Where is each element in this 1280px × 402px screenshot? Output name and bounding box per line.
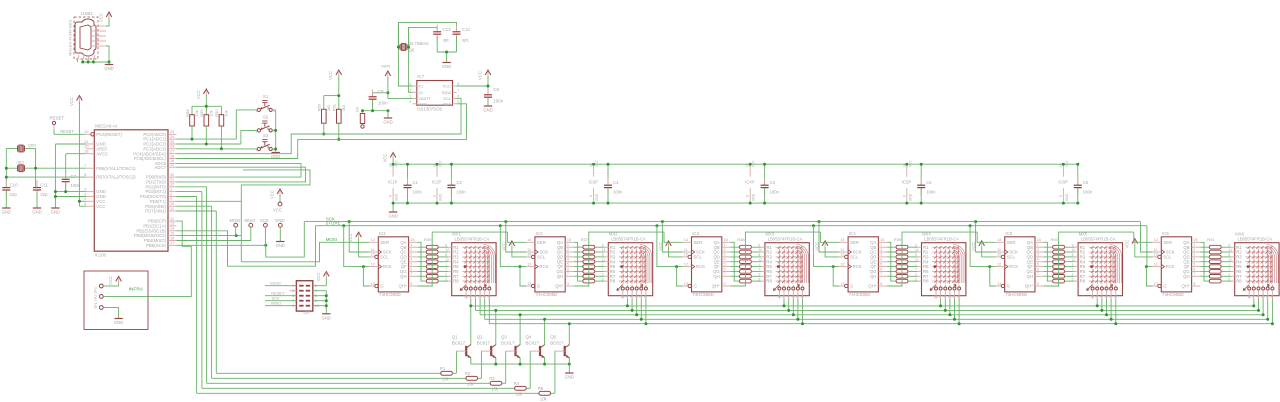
svg-text:2: 2 [170, 192, 172, 196]
wire collector drops to buses [469, 304, 571, 345]
wire emitter rail to GND [471, 363, 571, 373]
svg-text:2: 2 [410, 248, 412, 252]
wire ADC7 to PD1 jog [177, 167, 306, 182]
svg-text:6: 6 [796, 295, 798, 299]
svg-text:5: 5 [1193, 262, 1195, 266]
resistor R88 10k [185, 109, 199, 140]
resistor array R37 [574, 237, 605, 283]
svg-text:R2: R2 [465, 371, 471, 376]
wire buttons common to GND [272, 110, 277, 152]
svg-text:1: 1 [410, 243, 412, 247]
power VCC at USB [99, 12, 112, 22]
svg-text:10: 10 [1154, 253, 1158, 257]
svg-text:6: 6 [1193, 267, 1195, 271]
svg-text:Q3: Q3 [501, 335, 507, 340]
testpoint VCC pad [270, 189, 283, 213]
ground GND ISP [322, 314, 331, 321]
svg-text:R88: R88 [185, 109, 190, 117]
ic power pins IC1P [388, 160, 399, 205]
svg-text:R39: R39 [894, 237, 902, 242]
svg-text:3: 3 [1037, 253, 1039, 257]
svg-text:12: 12 [997, 262, 1001, 266]
ground GND testpoint [276, 242, 285, 249]
ground GND under MCU rail [51, 208, 60, 215]
wire pullup tops [192, 95, 221, 115]
svg-text:9: 9 [724, 282, 726, 286]
svg-text:IC7: IC7 [417, 74, 424, 79]
svg-text:13: 13 [997, 282, 1001, 286]
svg-text:INFRA: INFRA [129, 287, 144, 293]
svg-text:SCL: SCL [380, 255, 389, 260]
capacitor C12 opt [453, 25, 471, 43]
svg-text:4: 4 [1100, 295, 1102, 299]
svg-text:VCC: VCC [595, 160, 599, 167]
svg-text:IC3: IC3 [692, 231, 699, 236]
led matrix MX5 LB05574FR1B-CA [1072, 231, 1123, 298]
svg-text:6: 6 [1266, 295, 1268, 299]
svg-text:BC817: BC817 [452, 340, 466, 345]
svg-text:5: 5 [84, 192, 86, 196]
svg-text:13: 13 [1247, 295, 1251, 299]
svg-text:14: 14 [527, 238, 531, 242]
svg-text:100n: 100n [456, 190, 466, 195]
svg-text:12: 12 [1154, 262, 1158, 266]
svg-text:USB1: USB1 [81, 11, 93, 16]
svg-text:31: 31 [170, 178, 174, 182]
svg-text:18: 18 [84, 150, 88, 154]
testpoint RESET pad [50, 116, 65, 135]
wire PD row to base resistor [177, 192, 515, 389]
power VCC stage 3 [658, 241, 683, 257]
led matrix MX6 LB05574FR1B-CA [1228, 231, 1279, 298]
svg-text:9: 9 [170, 197, 172, 201]
wire C7 to GND row [64, 183, 67, 193]
svg-text:RCK: RCK [1009, 264, 1018, 269]
svg-text:9: 9 [602, 243, 604, 247]
wire ISP MISO [265, 301, 296, 306]
svg-text:PB7(XTAL2/TOSC2): PB7(XTAL2/TOSC2) [96, 175, 136, 180]
svg-text:2: 2 [409, 88, 411, 92]
svg-text:IC3P: IC3P [589, 180, 599, 185]
svg-text:4: 4 [787, 295, 789, 299]
svg-text:GND: GND [322, 315, 331, 320]
svg-text:9: 9 [567, 282, 569, 286]
svg-text:BC817: BC817 [550, 340, 564, 345]
led matrix MX4 LB05574FR1B-CA [915, 231, 966, 298]
wire VCC rail [393, 159, 1078, 165]
testpoint MOSI pad [230, 218, 241, 236]
svg-text:QH*: QH* [555, 284, 563, 289]
svg-text:9: 9 [1037, 282, 1039, 286]
wire SCK net from PB5 [177, 217, 1141, 258]
svg-text:10: 10 [478, 295, 482, 299]
svg-text:C1: C1 [413, 180, 419, 185]
svg-text:11: 11 [644, 295, 648, 299]
svg-text:7: 7 [602, 268, 604, 272]
svg-text:BC817: BC817 [501, 340, 515, 345]
svg-text:LB05574FR1B-CA: LB05574FR1B-CA [1238, 237, 1273, 242]
svg-text:15: 15 [880, 238, 884, 242]
svg-text:5: 5 [602, 277, 604, 281]
wire PC2 to S2 [177, 130, 258, 145]
svg-text:14: 14 [758, 248, 762, 252]
svg-text:VCC: VCC [443, 84, 452, 89]
wire GND rail left of MCU [54, 144, 86, 208]
power VCC stage 4 [815, 241, 840, 257]
svg-text:1: 1 [1193, 243, 1195, 247]
svg-text:ISP: ISP [303, 310, 310, 315]
wire C9 GND row [361, 109, 390, 117]
svg-text:6: 6 [953, 295, 955, 299]
svg-text:13: 13 [840, 282, 844, 286]
svg-text:15: 15 [567, 238, 571, 242]
svg-text:VCC: VCC [108, 276, 113, 285]
wire XTAL2 net [25, 149, 86, 188]
resistor R5 10k base [538, 351, 555, 402]
svg-text:14: 14 [602, 248, 606, 252]
led matrix MX1 LB05574FR1B-CA [445, 231, 496, 298]
wire R50 R51 tops [324, 76, 341, 109]
power VCC at RTC [478, 70, 491, 80]
svg-text:Q1: Q1 [452, 335, 458, 340]
svg-text:14: 14 [1072, 248, 1076, 252]
svg-text:12: 12 [840, 262, 844, 266]
op-amp IC6 74HC595D shift register [1153, 231, 1201, 297]
svg-text:3: 3 [1252, 295, 1254, 299]
svg-text:3: 3 [567, 253, 569, 257]
svg-text:11: 11 [371, 248, 375, 252]
switch S1 [255, 94, 275, 113]
op-amp IC5 74HC595D shift register [996, 231, 1044, 297]
svg-text:6: 6 [410, 267, 412, 271]
svg-text:SQW: SQW [441, 90, 451, 95]
svg-text:GND: GND [275, 218, 285, 223]
svg-text:14: 14 [1154, 238, 1158, 242]
wire MISO net from PB4 [177, 240, 251, 242]
svg-text:C10: C10 [10, 183, 19, 188]
svg-text:VCC: VCC [395, 160, 399, 167]
svg-text:GND: GND [1065, 193, 1069, 201]
op-amp IC7 DS1307SO8 RTC [409, 74, 459, 112]
svg-text:8: 8 [457, 82, 459, 86]
connector USB1 MOLEX-47346-0001 [68, 11, 107, 60]
svg-text:4: 4 [724, 258, 726, 262]
svg-text:SER: SER [537, 240, 546, 245]
wire SCK bus drops [348, 220, 1153, 252]
svg-text:10: 10 [371, 253, 375, 257]
resistor R51 2k2 [332, 103, 346, 141]
svg-text:2: 2 [724, 248, 726, 252]
svg-text:7: 7 [1037, 272, 1039, 276]
crystal Q8/1 [17, 161, 25, 172]
svg-text:13: 13 [684, 282, 688, 286]
svg-text:R1: R1 [440, 366, 446, 371]
svg-text:GND: GND [51, 210, 60, 215]
wire PD row to base resistor [177, 206, 466, 378]
svg-text:8: 8 [902, 195, 906, 197]
svg-text:GND: GND [418, 101, 427, 106]
svg-text:1: 1 [445, 263, 447, 267]
battery G6 [356, 107, 365, 128]
svg-text:GND: GND [2, 210, 11, 215]
svg-text:X2: X2 [418, 90, 424, 95]
op-amp IC2 74HC595D shift register [526, 231, 574, 297]
svg-text:PB6(XTAL1/TOSC1): PB6(XTAL1/TOSC1) [96, 166, 136, 171]
svg-text:32.768kHz: 32.768kHz [409, 41, 429, 46]
svg-text:10: 10 [170, 202, 174, 206]
wire PC1 to S1 [177, 110, 258, 141]
svg-text:VCC: VCC [908, 160, 912, 167]
svg-text:14: 14 [997, 238, 1001, 242]
capacitor C10 22p [2, 180, 18, 207]
svg-text:10k: 10k [224, 110, 229, 116]
svg-text:GND: GND [388, 214, 397, 219]
svg-text:IC1P: IC1P [388, 180, 398, 185]
svg-text:14: 14 [445, 248, 449, 252]
ground GND transistors [565, 373, 574, 380]
svg-text:100n: 100n [413, 190, 423, 195]
ground GND at USB [104, 62, 113, 71]
connector ISP header [292, 281, 319, 315]
svg-text:5: 5 [410, 262, 412, 266]
svg-text:9: 9 [410, 282, 412, 286]
svg-text:11: 11 [1270, 295, 1274, 299]
wire ISP MOSI [265, 281, 296, 286]
svg-text:PD7(AIN1): PD7(AIN1) [145, 209, 166, 214]
svg-text:SCL: SCL [443, 96, 452, 101]
svg-text:74HC595D: 74HC595D [379, 292, 401, 297]
wire XTAL1 net [5, 149, 86, 188]
svg-text:opt.: opt. [462, 38, 469, 43]
svg-text:11: 11 [840, 248, 844, 252]
svg-text:8: 8 [915, 253, 917, 257]
svg-text:22p: 22p [40, 192, 48, 197]
svg-text:74HC595D: 74HC595D [1005, 292, 1027, 297]
svg-text:RCK: RCK [1166, 264, 1175, 269]
svg-text:VBATT: VBATT [418, 96, 431, 101]
svg-text:QH: QH [1183, 274, 1189, 279]
svg-text:IC2: IC2 [536, 231, 543, 236]
svg-text:4: 4 [630, 295, 632, 299]
svg-text:1: 1 [915, 263, 917, 267]
svg-text:SER: SER [850, 240, 859, 245]
svg-text:SER: SER [1007, 240, 1016, 245]
svg-text:6: 6 [724, 267, 726, 271]
svg-text:Q5: Q5 [550, 335, 556, 340]
crystal Q8/2 [18, 143, 37, 152]
svg-text:PC6(RESET): PC6(RESET) [96, 132, 122, 137]
svg-text:11: 11 [957, 295, 961, 299]
svg-text:9: 9 [915, 243, 917, 247]
svg-text:SCL: SCL [694, 255, 703, 260]
svg-text:11: 11 [527, 248, 531, 252]
svg-text:7: 7 [457, 88, 459, 92]
ground GND under C9 [383, 118, 392, 125]
svg-text:1: 1 [170, 187, 172, 191]
svg-text:VCC: VCC [316, 273, 321, 282]
svg-text:5: 5 [1228, 277, 1230, 281]
svg-text:6: 6 [639, 295, 641, 299]
svg-text:R8: R8 [453, 279, 459, 284]
capacitor C4 100n [761, 163, 780, 205]
svg-text:2: 2 [567, 248, 569, 252]
svg-text:VCC: VCC [328, 71, 333, 80]
svg-text:RCK: RCK [696, 264, 705, 269]
capacitor C6 100n [1074, 163, 1093, 205]
power VBAT arrow [381, 65, 391, 78]
svg-text:11: 11 [684, 248, 688, 252]
ground GND under RTC crystal caps [442, 63, 451, 70]
svg-text:9: 9 [1228, 243, 1230, 247]
svg-text:10: 10 [840, 253, 844, 257]
capacitor C1 100n [404, 163, 423, 205]
svg-text:13: 13 [777, 295, 781, 299]
wire ISP GND pins [313, 291, 328, 314]
svg-text:2k2: 2k2 [326, 104, 331, 111]
svg-text:2: 2 [602, 272, 604, 276]
capacitor C7 100n [62, 172, 81, 189]
svg-text:8: 8 [1072, 253, 1074, 257]
wire ISP SCK [265, 296, 296, 301]
svg-text:MOSI: MOSI [230, 218, 241, 223]
testpoint TP1 GND [99, 306, 118, 318]
svg-text:9: 9 [880, 282, 882, 286]
svg-text:GND: GND [908, 193, 912, 201]
svg-text:LB05574FR1B-CA: LB05574FR1B-CA [455, 237, 490, 242]
svg-text:S2: S2 [263, 114, 269, 119]
svg-text:SCK: SCK [326, 217, 335, 222]
svg-text:VCC: VCC [1065, 160, 1069, 167]
svg-text:SDA: SDA [443, 101, 452, 106]
svg-text:14: 14 [684, 238, 688, 242]
svg-text:100n: 100n [493, 99, 503, 104]
svg-text:13: 13 [934, 295, 938, 299]
svg-text:R8: R8 [1236, 279, 1242, 284]
svg-text:MOSI: MOSI [270, 281, 280, 286]
svg-text:10k: 10k [540, 397, 548, 402]
svg-text:74HC595D: 74HC595D [536, 292, 558, 297]
wire USB GND net [78, 46, 111, 64]
wire ISP pin3 stub [290, 290, 297, 292]
transistor Q4 BC817 [526, 335, 545, 365]
svg-text:C5: C5 [926, 180, 932, 185]
svg-text:14: 14 [371, 238, 375, 242]
svg-text:IC5: IC5 [1005, 231, 1012, 236]
svg-text:4: 4 [880, 258, 882, 262]
svg-text:12: 12 [445, 258, 449, 262]
svg-text:6: 6 [1109, 295, 1111, 299]
svg-text:10k: 10k [442, 377, 450, 382]
svg-text:X1: X1 [418, 84, 424, 89]
wire PB0 to INFRA [148, 221, 191, 296]
svg-text:74HC595D: 74HC595D [849, 292, 871, 297]
svg-text:VCC: VCC [478, 71, 483, 80]
svg-text:2: 2 [880, 248, 882, 252]
wire AVCC line [66, 154, 86, 178]
svg-text:74HC595D: 74HC595D [1162, 292, 1184, 297]
op-amp IC3 74HC595D shift register [683, 231, 731, 297]
svg-text:8: 8 [445, 253, 447, 257]
resistor R4 10k base [514, 351, 531, 397]
svg-text:VCC: VCC [1124, 240, 1129, 249]
svg-text:3: 3 [1095, 295, 1097, 299]
svg-text:2: 2 [1037, 248, 1039, 252]
svg-text:10k: 10k [467, 382, 475, 387]
svg-text:Q6: Q6 [409, 48, 415, 53]
ground GND under C11 [32, 208, 41, 215]
svg-text:10: 10 [635, 295, 639, 299]
svg-text:9: 9 [445, 243, 447, 247]
power VCC for MCU [69, 96, 82, 107]
testpoint TP2 signal [99, 295, 148, 299]
capacitor C8 100n [484, 87, 504, 106]
wire STORE net from PB2 [177, 221, 1147, 267]
svg-text:QH*: QH* [1025, 284, 1033, 289]
svg-text:9: 9 [758, 243, 760, 247]
svg-text:MISO: MISO [245, 218, 257, 223]
testpoint TP3 VCC [99, 276, 121, 288]
svg-text:QH*: QH* [1181, 284, 1189, 289]
svg-text:SER: SER [694, 240, 703, 245]
svg-text:MISO: MISO [271, 301, 281, 306]
svg-text:1: 1 [758, 263, 760, 267]
svg-text:SCL: SCL [1007, 255, 1016, 260]
switch S2 [255, 114, 275, 133]
ic power pins IC2P [432, 160, 443, 205]
svg-text:8: 8 [1059, 195, 1063, 197]
svg-text:C4: C4 [770, 180, 776, 185]
svg-text:3: 3 [782, 295, 784, 299]
svg-text:28: 28 [170, 154, 174, 158]
svg-text:C13: C13 [443, 27, 452, 32]
svg-text:8: 8 [602, 253, 604, 257]
svg-text:6: 6 [483, 295, 485, 299]
svg-text:S3: S3 [263, 133, 269, 138]
svg-text:4: 4 [1257, 295, 1259, 299]
svg-text:1: 1 [1072, 263, 1074, 267]
testpoint GND pad [275, 218, 285, 241]
svg-text:1: 1 [880, 243, 882, 247]
svg-text:1: 1 [409, 82, 411, 86]
svg-text:11: 11 [801, 295, 805, 299]
svg-text:12: 12 [1228, 258, 1232, 262]
wire X1 net crystal left [397, 22, 457, 86]
svg-text:R8: R8 [766, 279, 772, 284]
svg-text:15: 15 [1193, 238, 1197, 242]
svg-text:11: 11 [170, 207, 174, 211]
svg-text:5: 5 [1072, 277, 1074, 281]
svg-text:7: 7 [1193, 272, 1195, 276]
wire STORE bus drops [342, 224, 1152, 286]
svg-text:8: 8 [84, 173, 86, 177]
svg-text:27: 27 [170, 150, 174, 154]
resistor array R38 [731, 237, 762, 283]
op-amp IC1 74HC595D shift register [370, 231, 418, 297]
svg-text:RESET: RESET [60, 129, 74, 134]
svg-text:5: 5 [1037, 262, 1039, 266]
svg-text:13: 13 [1091, 295, 1095, 299]
svg-text:8: 8 [1228, 253, 1230, 257]
svg-text:10: 10 [684, 253, 688, 257]
svg-text:2: 2 [445, 272, 447, 276]
svg-text:C6: C6 [1083, 180, 1089, 185]
svg-text:100n: 100n [71, 183, 81, 188]
svg-text:22: 22 [170, 163, 174, 167]
svg-text:MOSI: MOSI [326, 237, 337, 242]
svg-text:SCK: SCK [260, 218, 269, 223]
wire PD row to base resistor [177, 187, 491, 383]
power VCC ISP [313, 272, 329, 286]
